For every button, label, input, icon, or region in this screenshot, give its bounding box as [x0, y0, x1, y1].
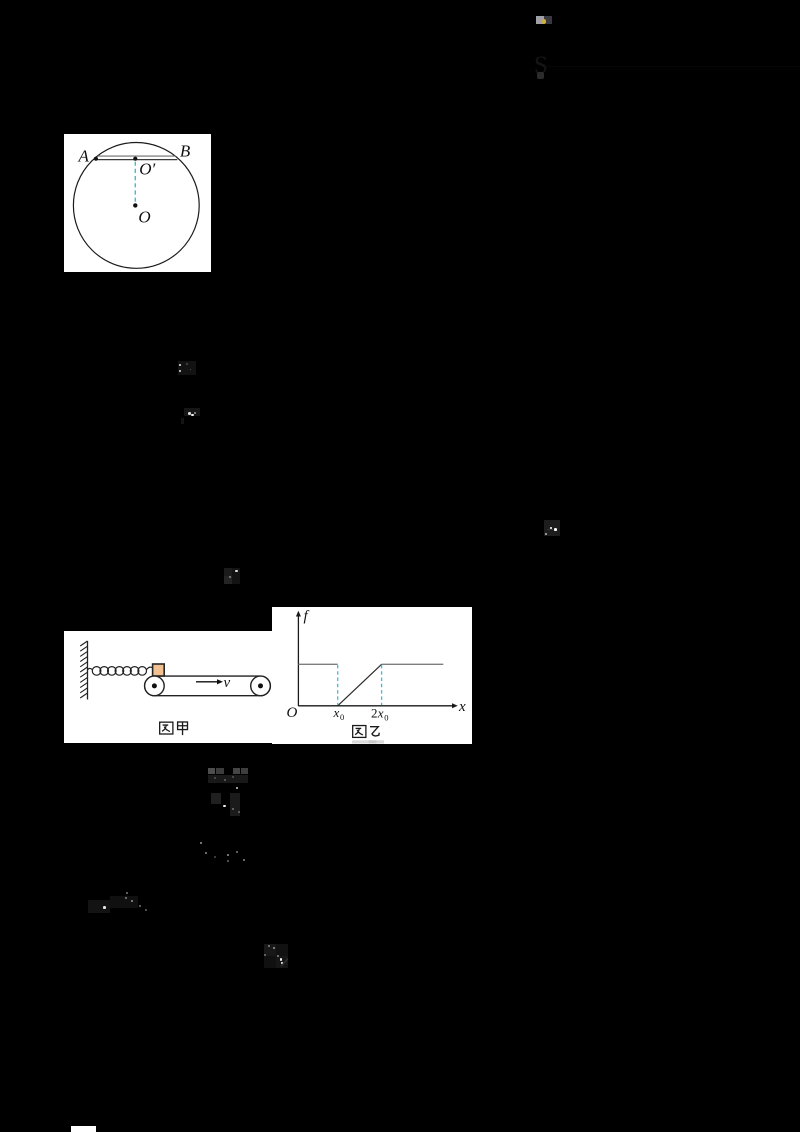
caption 图甲 — [160, 722, 173, 734]
left pulley — [145, 676, 165, 696]
rod AB — [98, 155, 176, 157]
dashed OO' — [134, 162, 136, 203]
svg-text:x: x — [458, 699, 466, 715]
dot O' — [133, 157, 137, 161]
f curve — [298, 663, 337, 665]
figure 1: circle with chord AB — [64, 134, 211, 272]
svg-text:2: 2 — [371, 706, 378, 721]
y axis — [297, 616, 299, 707]
block — [153, 664, 165, 676]
gray smudge bar — [352, 740, 384, 743]
svg-text:O: O — [287, 705, 298, 721]
dashed 2x0 — [381, 665, 383, 705]
svg-text:A: A — [78, 147, 90, 166]
fragment D — [542, 519, 561, 537]
svg-text:v: v — [224, 675, 231, 691]
spring — [88, 668, 93, 669]
arrow v — [196, 681, 218, 683]
fragment G — [86, 890, 162, 915]
fragment F — [191, 839, 251, 867]
fragment E — [206, 766, 250, 817]
circle O — [73, 143, 199, 269]
svg-text:0: 0 — [384, 712, 388, 722]
x axis — [298, 705, 453, 707]
faint sub-blob under S — [537, 72, 544, 79]
caption 图乙 — [353, 726, 366, 738]
belt — [145, 676, 271, 696]
svg-text:x: x — [377, 706, 384, 721]
figure 2 left: spring + conveyor — [64, 631, 274, 743]
svg-text:O: O — [138, 208, 150, 227]
bottom partial white figure — [71, 1126, 96, 1132]
top icon (two squares with yellow blob) — [536, 16, 552, 25]
right pulley — [251, 676, 271, 696]
dot O — [133, 203, 137, 207]
fragment H — [261, 941, 291, 969]
figure 2 right: f-x graph — [272, 607, 472, 744]
fragment A — [175, 357, 200, 379]
svg-text:B: B — [180, 142, 191, 161]
fragment C — [223, 565, 241, 585]
wall — [87, 641, 89, 700]
fragment B — [178, 405, 201, 425]
faint heading underline — [545, 66, 800, 68]
svg-text:0: 0 — [340, 712, 344, 722]
svg-text:f: f — [304, 609, 310, 625]
dashed x0 — [337, 665, 339, 705]
faint S glyph — [534, 53, 550, 81]
dot A — [94, 157, 98, 161]
svg-text:O′: O′ — [139, 160, 155, 179]
svg-text:x: x — [333, 705, 340, 720]
